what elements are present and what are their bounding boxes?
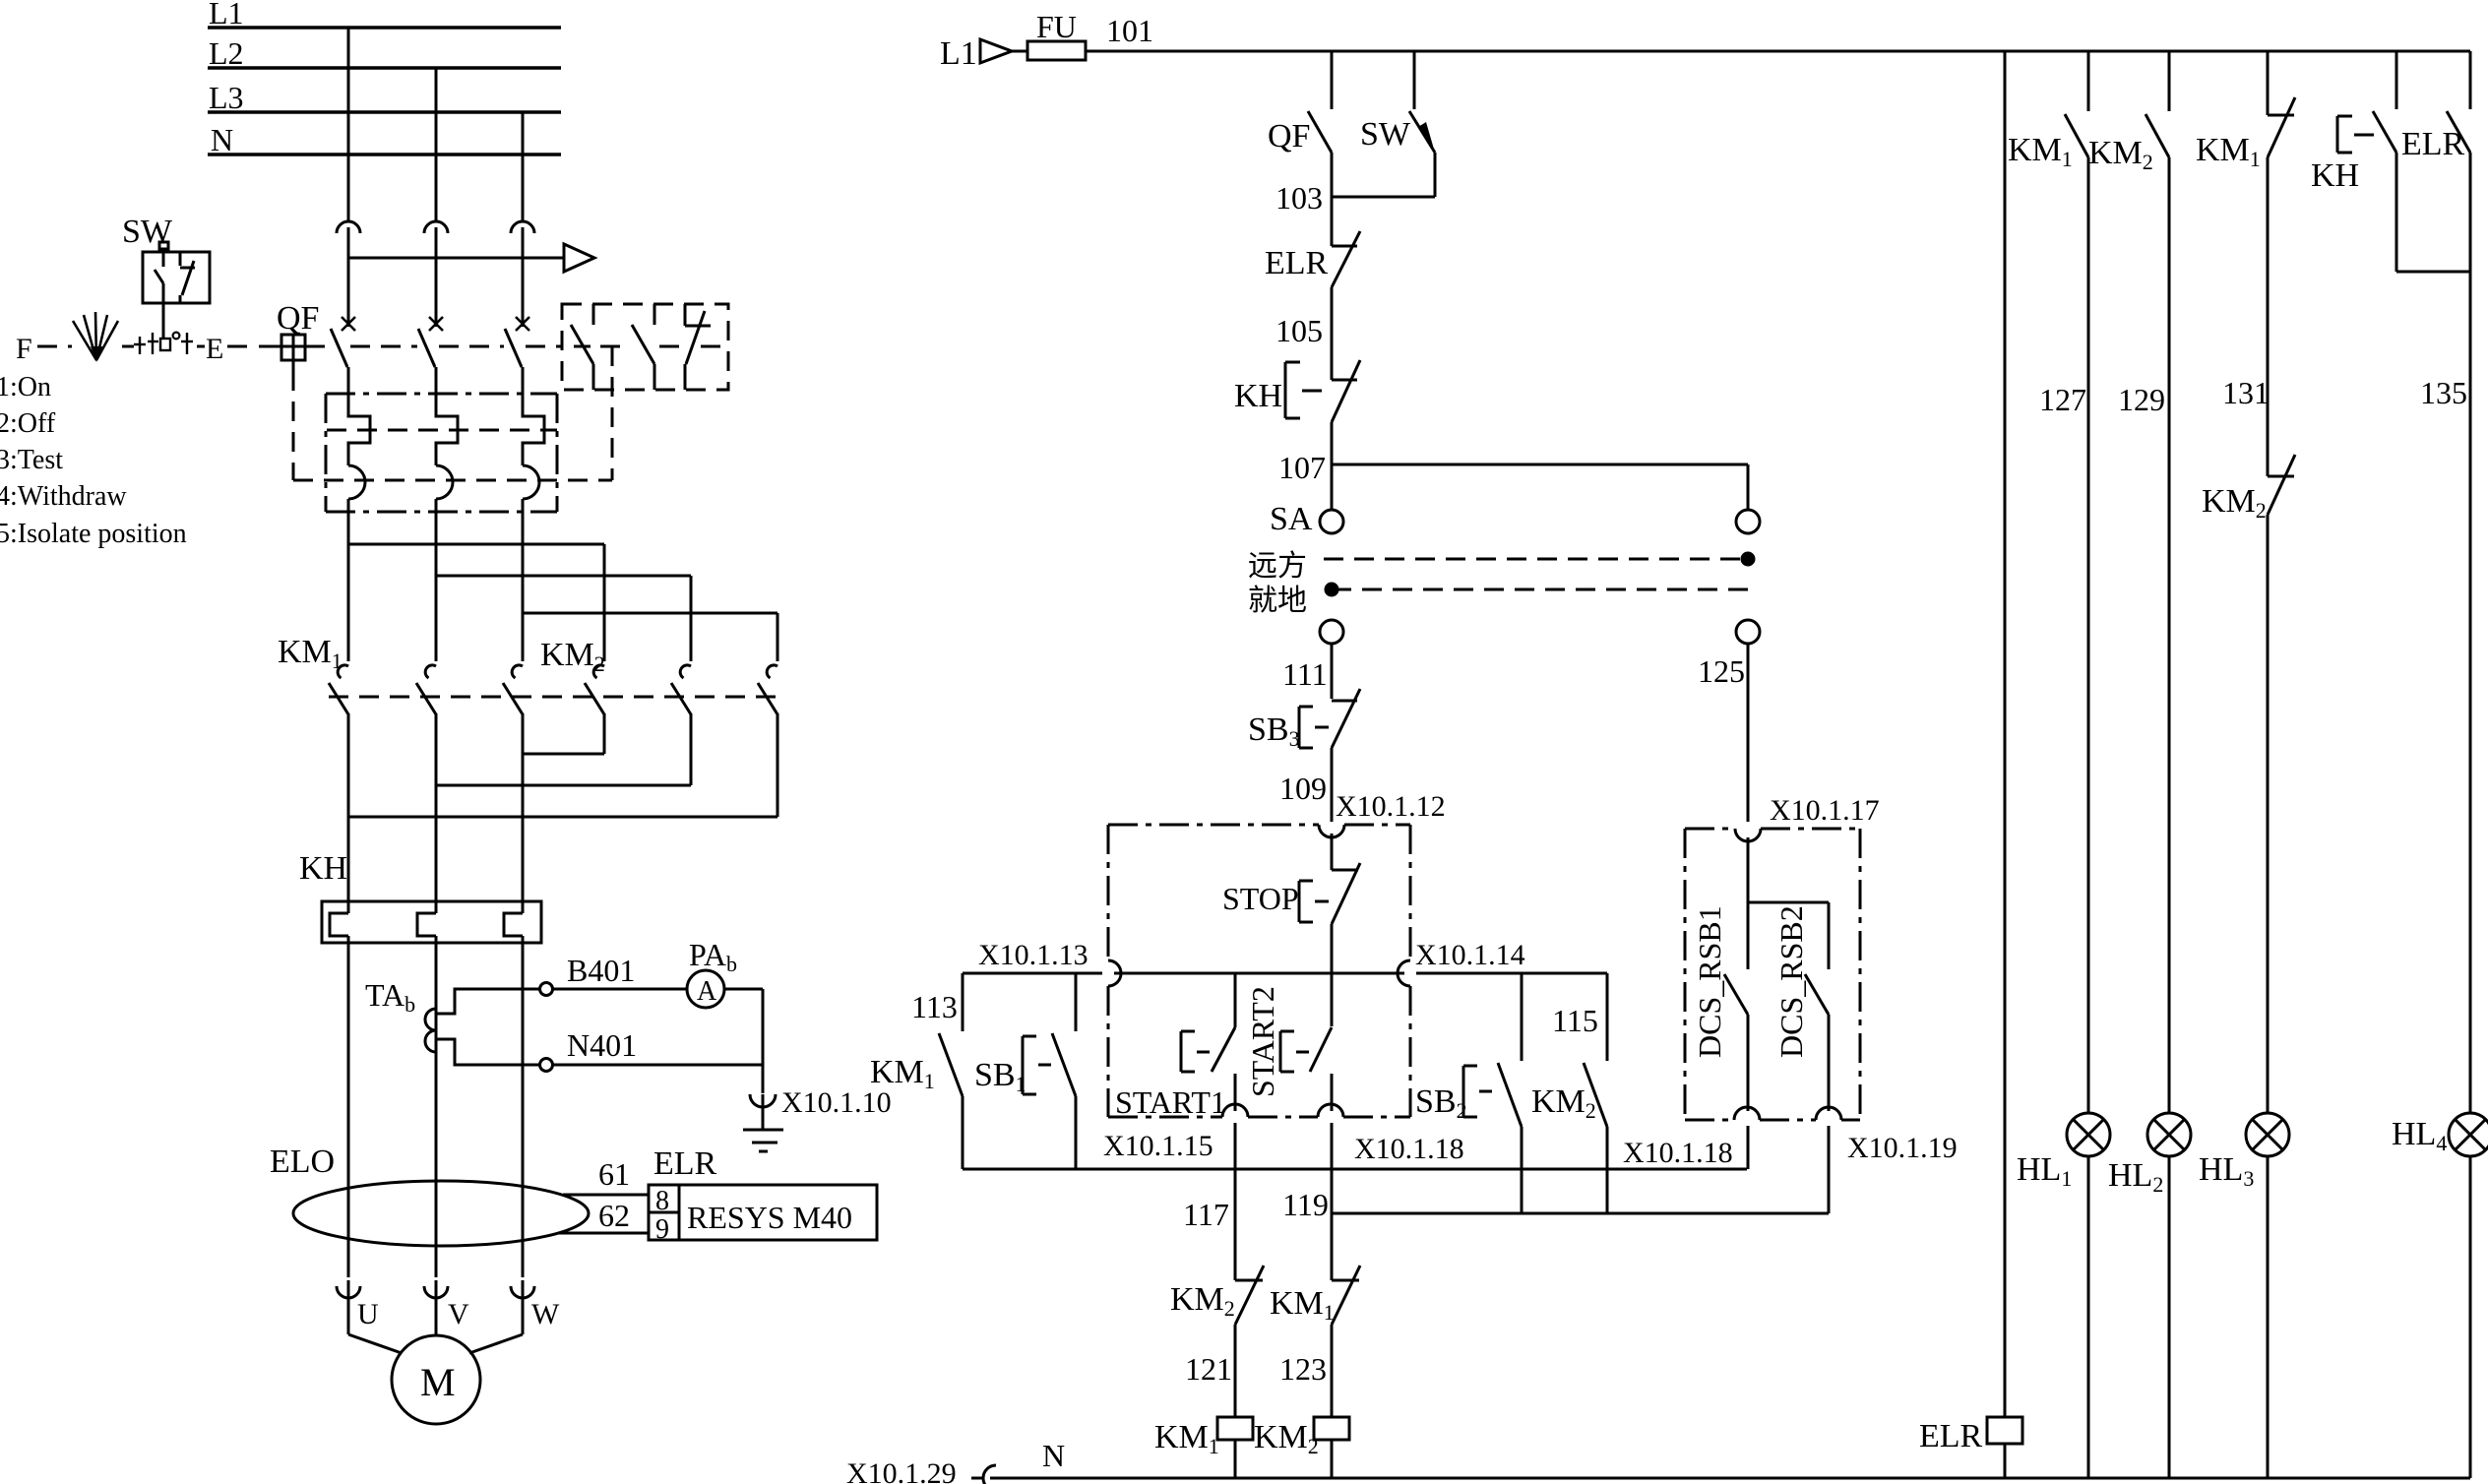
- fuse FU: [1027, 9, 1086, 60]
- legend breaker positions: [0, 372, 187, 549]
- terminal notch X10.1.18a: [1318, 1104, 1343, 1117]
- motor M: [392, 1335, 480, 1424]
- svg-text:X10.1.10: X10.1.10: [781, 1086, 892, 1119]
- contactor interlock KM2 (NC): [1170, 1266, 1264, 1417]
- local control station enclosure: [1108, 825, 1410, 1117]
- wire CT secondary N401: [437, 1039, 540, 1065]
- thermal release element phase B: [436, 394, 458, 465]
- label 117: [1183, 1197, 1229, 1232]
- svg-text:STOP: STOP: [1222, 881, 1299, 916]
- contactor aux KM2 (HL2 branch): [2088, 51, 2169, 174]
- svg-text:U: U: [357, 1298, 379, 1330]
- magnetic release element phase B: [436, 465, 453, 512]
- wire node 105: [1275, 287, 1332, 380]
- svg-text:109: 109: [1279, 771, 1327, 806]
- contactor aux contact KM2 (NO hold): [1531, 973, 1607, 1213]
- svg-text:101: 101: [1106, 13, 1153, 48]
- coil KM2: [1254, 1417, 1349, 1478]
- svg-text:TAb: TAb: [365, 977, 415, 1017]
- wire phase C to breaker: [522, 244, 525, 327]
- coil KM1: [1154, 1417, 1253, 1478]
- wire QF pole B to trip unit: [435, 367, 438, 394]
- wire phase B to breaker: [435, 244, 438, 327]
- pushbutton SB2 (NO): [1415, 973, 1522, 1213]
- wire 135 column: [2420, 272, 2470, 1113]
- wire node 111: [1282, 644, 1332, 699]
- svg-text:131: 131: [2222, 375, 2270, 410]
- pushbutton START1 (NO): [1115, 973, 1235, 1120]
- svg-text:KM1: KM1: [2196, 132, 2261, 171]
- svg-text:QF: QF: [277, 300, 319, 337]
- magnetic release element phase A: [348, 465, 365, 512]
- svg-text:远方: 远方: [1248, 550, 1307, 583]
- wire DCS_RSB2 output: [1828, 1126, 1831, 1213]
- label N: [1042, 1438, 1065, 1473]
- wire control rail 101: [1012, 50, 2470, 53]
- coil ELR: [1919, 1417, 2022, 1478]
- svg-text:SB2: SB2: [1415, 1083, 1467, 1123]
- label 119: [1282, 1187, 1329, 1222]
- wire ELO 61 to ELR: [563, 1156, 649, 1195]
- contactor KM1 label: [278, 634, 342, 673]
- wire 131 column upper: [2222, 157, 2270, 476]
- wire dashed interlock riser to aux block: [611, 346, 614, 480]
- svg-text:X10.1.19: X10.1.19: [1847, 1132, 1958, 1164]
- remote contact DCS_RSB2: [1748, 902, 1829, 1111]
- terminal X10.1.29: [846, 1457, 996, 1484]
- contactor contact KM2 pole 3: [758, 665, 777, 714]
- terminal notch X10.1.19: [1816, 1107, 1841, 1120]
- svg-text:L1: L1: [209, 0, 244, 31]
- wire W to motor: [469, 1295, 523, 1353]
- terminal notch X10.1.14: [1398, 960, 1410, 986]
- svg-text:E: E: [206, 333, 223, 365]
- label N401: [567, 1027, 637, 1063]
- wire 129 column: [2118, 157, 2169, 1113]
- label 101: [1106, 13, 1153, 48]
- wire B401 to ammeter: [553, 988, 687, 991]
- contactor contact KM1 pole A: [329, 665, 348, 714]
- wire CT secondary B401: [437, 989, 540, 1014]
- svg-text:KH: KH: [1234, 378, 1282, 414]
- relay aux contact ELR (HL4 branch): [2401, 51, 2470, 272]
- node E: [206, 333, 223, 365]
- contactor contact KM2 pole 1: [585, 665, 604, 714]
- wire HL2 to N: [2168, 1156, 2171, 1478]
- pushbutton STOP (NC): [1222, 834, 1360, 924]
- wire crossover A to KM2 pole1: [348, 544, 604, 661]
- svg-text:KM2: KM2: [1170, 1281, 1235, 1321]
- svg-text:A: A: [697, 976, 717, 1007]
- wire KM2 pole3 output to A: [348, 713, 777, 817]
- contactor contact KM2 pole 2: [671, 665, 691, 714]
- label yuanfang (remote): [1248, 550, 1307, 583]
- node F: [16, 333, 32, 365]
- wire phase A below KH: [347, 936, 350, 1277]
- wire phase C below KH: [522, 936, 525, 1277]
- wire dashed magnetic trip linkage: [293, 479, 612, 482]
- svg-text:127: 127: [2039, 382, 2086, 417]
- wire node 109: [1279, 748, 1332, 822]
- svg-text:N: N: [211, 122, 233, 157]
- svg-text:HL1: HL1: [2017, 1151, 2072, 1191]
- svg-text:QF: QF: [1268, 118, 1310, 155]
- svg-text:117: 117: [1183, 1197, 1229, 1232]
- svg-text:V: V: [448, 1298, 469, 1330]
- svg-text:X10.1.18: X10.1.18: [1354, 1133, 1464, 1165]
- wire aux tap with arrow: [348, 244, 594, 272]
- label X10.1.14: [1415, 939, 1525, 971]
- svg-text:KM1: KM1: [1154, 1419, 1219, 1458]
- wire phase C drop from bus: [522, 112, 525, 221]
- wire N401 to corner: [553, 1064, 763, 1067]
- terminal notch X10.1.15: [1222, 1104, 1248, 1117]
- svg-text:KH: KH: [2311, 157, 2359, 194]
- svg-text:KM1: KM1: [278, 634, 342, 673]
- breaker QF trip unit box: [326, 394, 557, 512]
- svg-text:113: 113: [911, 989, 958, 1024]
- svg-text:125: 125: [1698, 653, 1745, 689]
- relay contact ELR (NC): [1265, 231, 1360, 287]
- wire phase A drop from bus: [347, 28, 350, 221]
- selector switch SA: [1270, 501, 1760, 644]
- spark gap symbol: [73, 312, 118, 362]
- svg-text:61: 61: [598, 1156, 630, 1192]
- wire node 103: [1275, 153, 1435, 246]
- earth leakage sensor ELO: [270, 1144, 589, 1246]
- remote contact DCS_RSB1: [1692, 837, 1748, 1111]
- svg-text:115: 115: [1552, 1003, 1598, 1038]
- svg-text:ELO: ELO: [270, 1144, 335, 1180]
- label W: [531, 1298, 560, 1330]
- svg-text:SW: SW: [1360, 116, 1411, 153]
- svg-text:L1: L1: [940, 35, 977, 72]
- contactor contact KM1 pole B: [416, 665, 436, 714]
- svg-text:3:Test: 3:Test: [0, 445, 63, 475]
- svg-text:5:Isolate position: 5:Isolate position: [0, 519, 187, 549]
- drawout stab phase B: [424, 221, 448, 244]
- svg-text:KM2: KM2: [2088, 135, 2153, 174]
- pushbutton START2 (NO): [1245, 986, 1332, 1111]
- terminal circle N401: [540, 1059, 553, 1072]
- source L1 arrow: [940, 35, 1012, 72]
- wire node 125: [1698, 644, 1748, 822]
- breaker QF pole C: [505, 317, 529, 367]
- bus N: [208, 122, 561, 157]
- label V: [448, 1298, 469, 1330]
- svg-text:123: 123: [1279, 1351, 1327, 1387]
- label 123: [1279, 1351, 1327, 1387]
- lamp HL2: [2108, 1113, 2191, 1197]
- breaker QF drawout symbol: [277, 300, 319, 371]
- svg-text:HL2: HL2: [2108, 1157, 2163, 1197]
- svg-text:62: 62: [598, 1198, 630, 1233]
- wire crossover B to KM2 pole2: [436, 576, 691, 661]
- svg-text:L2: L2: [209, 35, 244, 71]
- ground symbol: [743, 1108, 783, 1151]
- thermal release element phase A: [348, 394, 370, 465]
- svg-text:B401: B401: [567, 953, 635, 988]
- label X10.1.13: [978, 939, 1088, 971]
- wire KM1 pole B output: [435, 713, 438, 913]
- contactor KM2 label (power): [540, 637, 605, 676]
- wire trip unit phase B down: [435, 512, 438, 661]
- wire 127 column: [2039, 157, 2088, 1113]
- svg-text:103: 103: [1275, 180, 1323, 216]
- ammeter PAb: [687, 937, 737, 1008]
- svg-text:ELR: ELR: [1265, 245, 1329, 281]
- wire START2 output 119: [1331, 1123, 1334, 1280]
- svg-text:4:Withdraw: 4:Withdraw: [0, 481, 127, 512]
- label 115: [1552, 1003, 1598, 1038]
- relay ELR RESYS M40: [649, 1145, 877, 1245]
- wire HL4 to N: [2469, 1156, 2472, 1478]
- wire DCS_RSB1 output: [1747, 1126, 1750, 1169]
- bus L3: [208, 80, 561, 115]
- svg-text:HL4: HL4: [2392, 1116, 2447, 1155]
- label U: [357, 1298, 379, 1330]
- svg-text:X10.1.13: X10.1.13: [978, 939, 1088, 971]
- svg-text:1:On: 1:On: [0, 372, 51, 402]
- wire node 107: [1278, 422, 1332, 510]
- wire 107 to remote branch: [1332, 464, 1748, 510]
- svg-text:KM1: KM1: [2008, 132, 2073, 171]
- svg-text:SB3: SB3: [1248, 711, 1300, 751]
- pushbutton SB3 (NC): [1248, 689, 1360, 751]
- svg-text:N401: N401: [567, 1027, 637, 1063]
- wire dashed thermal trip linkage: [327, 429, 557, 432]
- svg-text:N: N: [1042, 1438, 1065, 1473]
- wire KM2 pole1 output to C: [523, 713, 604, 754]
- svg-text:KM1: KM1: [870, 1054, 935, 1093]
- switch SW: [122, 214, 210, 303]
- terminal notch X10.1.18c: [1734, 1107, 1760, 1120]
- svg-text:SA: SA: [1270, 501, 1313, 537]
- svg-text:135: 135: [2420, 375, 2467, 410]
- svg-text:X10.1.14: X10.1.14: [1415, 939, 1525, 971]
- wire QF pole C to trip unit: [522, 367, 525, 394]
- breaker QF pole B: [418, 317, 443, 367]
- wire STOP to node 113 rail: [1331, 924, 1334, 1026]
- svg-text:KH: KH: [299, 850, 347, 887]
- thermal relay contact KH (NC): [1234, 360, 1360, 422]
- svg-text:SB1: SB1: [974, 1057, 1026, 1096]
- svg-text:X10.1.17: X10.1.17: [1770, 794, 1880, 827]
- racking position indicator symbols: [134, 333, 193, 354]
- wire ELR coil column: [2004, 51, 2007, 1417]
- terminal circle B401: [540, 983, 553, 996]
- svg-text:START2: START2: [1245, 986, 1280, 1097]
- svg-text:F: F: [16, 333, 32, 365]
- svg-text:ELR: ELR: [653, 1145, 717, 1182]
- wire node 117 rail: [963, 1168, 1747, 1171]
- wire ammeter to corner: [724, 989, 763, 1065]
- DCS interface enclosure: [1685, 829, 1860, 1120]
- svg-text:START1: START1: [1115, 1084, 1226, 1120]
- svg-text:105: 105: [1275, 313, 1323, 348]
- svg-text:SW: SW: [122, 214, 173, 250]
- wire crossover C to KM2 pole3: [523, 613, 777, 661]
- thermal relay KH heater box: [299, 850, 541, 943]
- wire 131 column lower: [2267, 515, 2270, 1113]
- svg-text:DCS_RSB1: DCS_RSB1: [1692, 905, 1727, 1058]
- wire phase B drop from bus: [435, 68, 438, 221]
- thermal actuator KH (HL4 branch): [2311, 116, 2380, 194]
- svg-text:2:Off: 2:Off: [0, 408, 56, 439]
- lamp HL4: [2392, 1113, 2488, 1156]
- svg-text:ELR: ELR: [1919, 1418, 1983, 1454]
- svg-text:KM2: KM2: [1254, 1419, 1319, 1458]
- svg-text:L3: L3: [209, 80, 244, 115]
- label X10.1.17: [1770, 794, 1880, 827]
- wire SW to position indicator: [162, 303, 165, 339]
- svg-text:ELR: ELR: [2401, 126, 2465, 162]
- terminal notch X10.1.13: [1108, 960, 1121, 986]
- breaker QF auxiliary contact block: [562, 304, 728, 390]
- current transformer TAb: [365, 977, 436, 1052]
- lamp HL3: [2199, 1113, 2289, 1191]
- switch aux contact SW: [1360, 51, 1435, 197]
- label X10.1.19: [1847, 1132, 1958, 1164]
- wire KM1 pole A output: [347, 713, 350, 913]
- wire QF pole A to trip unit: [347, 367, 350, 394]
- label X10.1.18a: [1354, 1133, 1464, 1165]
- drawout stab phase A: [337, 221, 360, 244]
- thermal release element phase C: [523, 394, 544, 465]
- svg-text:KM2: KM2: [2202, 483, 2267, 523]
- breaker trip test contact (KH): [2373, 51, 2396, 272]
- svg-text:KM2: KM2: [1531, 1083, 1596, 1123]
- svg-text:111: 111: [1282, 656, 1328, 692]
- motor terminal V: [424, 1280, 448, 1298]
- svg-text:就地: 就地: [1248, 585, 1307, 617]
- wire V to motor: [435, 1295, 438, 1335]
- svg-text:X10.1.29: X10.1.29: [846, 1457, 957, 1484]
- wire dashed QF interlock main: [305, 345, 562, 348]
- contactor aux KM1 (NC, HL3 branch): [2196, 51, 2295, 171]
- label X10.1.12: [1336, 790, 1446, 823]
- bus L2: [208, 35, 561, 71]
- motor terminal U: [337, 1280, 360, 1298]
- label 113: [911, 989, 958, 1024]
- wire U to motor: [348, 1295, 402, 1353]
- svg-text:121: 121: [1185, 1351, 1232, 1387]
- breaker QF pole A: [331, 317, 355, 367]
- drawout stab phase C: [511, 221, 534, 244]
- wire ELO 62 to ELR: [559, 1198, 649, 1233]
- svg-text:X10.1.18: X10.1.18: [1623, 1137, 1733, 1169]
- svg-text:M: M: [420, 1360, 456, 1404]
- svg-text:X10.1.15: X10.1.15: [1103, 1130, 1213, 1162]
- wire E to QF box: [259, 345, 281, 348]
- label X10.1.18b: [1623, 1137, 1733, 1169]
- breaker aux contact QF: [1268, 111, 1332, 155]
- wire dashed F to E: [37, 345, 258, 348]
- svg-text:8: 8: [655, 1186, 669, 1216]
- wire QF aux drop: [1331, 51, 1334, 109]
- wire phase A to breaker: [347, 244, 350, 327]
- label X10.1.15: [1103, 1130, 1213, 1162]
- wire HL1 to N: [2087, 1156, 2090, 1478]
- wire START1 output 117: [1234, 1123, 1237, 1280]
- svg-text:KM1: KM1: [1270, 1285, 1335, 1325]
- svg-text:119: 119: [1282, 1187, 1329, 1222]
- contactor contact KM1 pole C: [503, 665, 523, 714]
- bus L1: [208, 0, 561, 31]
- wire join HL4 branch: [2396, 271, 2470, 274]
- terminal notch X10.1.12: [1319, 825, 1344, 837]
- contactor aux KM1 (HL1 branch): [2008, 51, 2088, 171]
- svg-text:RESYS M40: RESYS M40: [687, 1200, 852, 1235]
- label jiudi (local): [1248, 585, 1307, 617]
- wire KM1 pole C output: [522, 713, 525, 913]
- wire trip unit phase A down: [347, 512, 350, 661]
- lamp HL1: [2017, 1113, 2110, 1191]
- svg-text:129: 129: [2118, 382, 2165, 417]
- svg-text:107: 107: [1278, 450, 1326, 485]
- terminal notch X10.1.17: [1735, 829, 1761, 841]
- label B401: [567, 953, 635, 988]
- pushbutton SB1 (NO): [974, 973, 1076, 1169]
- svg-text:W: W: [531, 1298, 560, 1330]
- svg-text:DCS_RSB2: DCS_RSB2: [1773, 905, 1809, 1058]
- wire KM2 pole2 output to B: [436, 713, 691, 785]
- wire dashed SA local position: [1325, 583, 1757, 597]
- wire HL3 to N: [2267, 1156, 2270, 1478]
- contactor aux KM2 (NC, HL3 branch): [2202, 455, 2295, 523]
- svg-text:9: 9: [655, 1214, 669, 1245]
- wire dashed QF interlock down: [292, 371, 295, 480]
- svg-text:X10.1.12: X10.1.12: [1336, 790, 1446, 823]
- contactor aux contact KM1 (NO hold): [870, 973, 963, 1169]
- wire trip unit phase C down: [522, 512, 525, 661]
- wire node 119 line: [1332, 1212, 1829, 1215]
- svg-text:HL3: HL3: [2199, 1151, 2254, 1191]
- wire node 113 rail: [963, 972, 1607, 975]
- terminal X10.1.10: [750, 1065, 892, 1119]
- magnetic release element phase C: [523, 465, 539, 512]
- wire dashed contactor interlock: [329, 696, 782, 699]
- svg-text:FU: FU: [1036, 9, 1077, 44]
- wire neutral rail N: [990, 1477, 2470, 1480]
- contactor interlock KM1 (NC): [1270, 1266, 1360, 1417]
- wire dashed SA remote position: [1324, 552, 1756, 567]
- motor terminal W: [511, 1280, 534, 1298]
- wire phase B below KH: [435, 936, 438, 1277]
- label 121: [1185, 1351, 1232, 1387]
